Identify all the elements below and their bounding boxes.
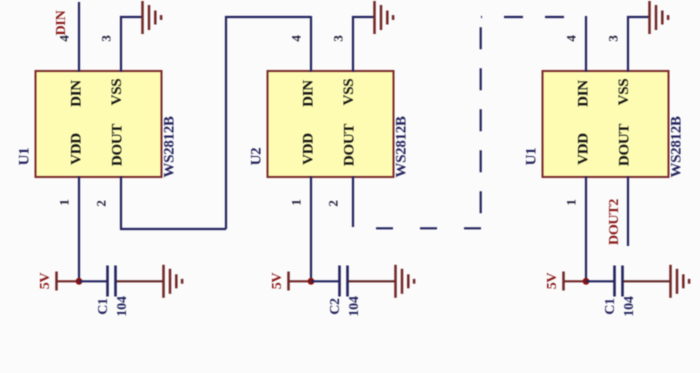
IC U2 WS2812B body (chip 2) [268,71,394,177]
svg-text:DOUT: DOUT [617,124,633,166]
ground top chip 3 [650,1,669,34]
svg-text:1: 1 [289,199,304,205]
IC U1 WS2812B body (chip 3) [543,71,669,177]
svg-text:DIN: DIN [69,80,85,107]
dashed wire U2 DOUT to chip 3 (horizontal lower) [353,227,481,229]
wire VDD pin 1 (chip 3) [585,176,587,281]
wire VDD pin 1 (chip 2) [310,176,312,281]
wire VSS pin 3 to ground (chip 3) [627,16,649,72]
svg-text:3: 3 [331,35,346,42]
svg-text:4: 4 [564,35,579,42]
junction node VDD/5V/C1 (chip 1) [76,278,83,285]
wire DOUT U2 (pin 2) [352,176,354,227]
svg-text:104: 104 [347,296,362,316]
ground top chip 1 [143,1,162,34]
svg-text:U1: U1 [524,148,540,166]
wire VSS pin 3 to ground (chip 1) [120,16,142,72]
power port 5V (chip 3) [564,272,587,291]
wire capacitor to ground (chip 1) [117,280,164,282]
wire capacitor to ground (chip 2) [349,280,396,282]
svg-text:C2: C2 [328,298,343,315]
svg-text:5V: 5V [545,273,560,290]
svg-text:C1: C1 [603,298,618,315]
wire VDD pin 1 (chip 1) [78,176,80,281]
svg-text:1: 1 [564,199,579,205]
svg-text:DOUT: DOUT [342,124,358,166]
svg-text:DOUT2: DOUT2 [607,199,622,245]
svg-text:3: 3 [99,35,114,42]
svg-text:WS2812B: WS2812B [669,116,685,178]
svg-text:4: 4 [289,35,304,42]
power port 5V (chip 1) [57,272,80,291]
svg-text:WS2812B: WS2812B [394,116,410,178]
svg-text:1: 1 [57,199,72,205]
ground top chip 2 [375,1,394,34]
svg-text:5V: 5V [38,273,53,290]
svg-text:DIN: DIN [301,80,317,107]
svg-text:VSS: VSS [616,79,632,106]
svg-text:WS2812B: WS2812B [162,116,178,178]
svg-text:U2: U2 [249,148,265,166]
svg-text:DIN: DIN [576,80,592,107]
wire DIN input (pin 4, U1 chip 1) [78,2,80,72]
wire capacitor to ground (chip 3) [624,280,671,282]
ground bottom chip 3 [671,265,690,298]
wire DIN pin 4 of U2 [310,16,312,72]
svg-text:U1: U1 [17,148,33,166]
dashed wire vertical riser [480,17,482,228]
dashed wire top horizontal to chip 3 DIN [481,16,566,18]
svg-text:2: 2 [94,200,109,206]
wire junction to capacitor (chip 2) [311,280,339,282]
svg-text:VDD: VDD [576,133,592,165]
wire DOUT U1 routed to U2 DIN [120,16,311,229]
svg-text:DIN: DIN [54,10,69,35]
svg-text:104: 104 [622,296,637,316]
svg-text:C1: C1 [96,298,111,315]
junction node VDD/5V/C1 (chip 3) [583,278,590,285]
svg-text:104: 104 [115,296,130,316]
wire VSS pin 3 to ground (chip 2) [352,16,374,72]
wire junction to capacitor (chip 1) [79,280,107,282]
svg-text:4: 4 [57,35,72,42]
ground bottom chip 2 [396,265,415,298]
power port 5V (chip 2) [289,272,312,291]
wire DOUT chip 3 with net label [627,176,629,246]
wire DIN pin 4 of chip 3 [585,16,587,72]
svg-text:2: 2 [326,200,341,206]
svg-text:5V: 5V [270,273,285,290]
ground bottom chip 1 [164,265,183,298]
svg-text:VSS: VSS [109,79,125,106]
svg-text:VDD: VDD [301,133,317,165]
capacitor C2 104 (chip 2) [340,266,348,297]
svg-text:3: 3 [606,35,621,42]
junction node VDD/5V/C2 (chip 2) [308,278,315,285]
IC U1 WS2812B body (chip 1) [36,71,162,177]
wire junction to capacitor (chip 3) [586,280,614,282]
svg-text:VDD: VDD [69,133,85,165]
capacitor C1 104 (chip 3) [615,266,623,297]
capacitor C1 104 (chip 1) [108,266,116,297]
svg-text:VSS: VSS [341,79,357,106]
svg-text:DOUT: DOUT [110,124,126,166]
